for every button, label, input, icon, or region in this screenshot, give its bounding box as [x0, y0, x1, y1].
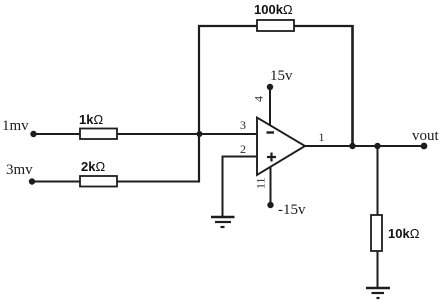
svg-text:3mv: 3mv — [6, 162, 33, 178]
wire: output from op-amp to vout — [305, 145, 424, 147]
svg-text:2kΩ: 2kΩ — [81, 159, 105, 174]
wire: 1mv input horizontal to node A — [33, 133, 258, 135]
node junction J1 (feedback joins output) — [349, 143, 355, 149]
svg-text:100kΩ: 100kΩ — [254, 2, 293, 17]
ground (right, below R3) — [366, 288, 390, 298]
wire: feedback right vertical — [351, 25, 354, 146]
svg-text:15v: 15v — [270, 68, 293, 84]
resistor R1 1k body — [80, 129, 117, 140]
node terminal vout dot — [421, 143, 428, 150]
node terminal 1mv dot — [30, 131, 36, 137]
svg-text:1kΩ: 1kΩ — [79, 112, 103, 127]
node A junction dot (summing node) — [197, 131, 203, 137]
wire: V- supply from op-amp bottom edge down — [270, 166, 272, 205]
node terminal +15v dot — [267, 84, 273, 90]
svg-text:10kΩ: 10kΩ — [388, 226, 420, 241]
svg-text:2: 2 — [240, 142, 246, 156]
ground (left, at + input) — [211, 217, 235, 227]
resistor RF 100k body — [257, 20, 294, 31]
wire: load branch vertical down to R3 — [377, 146, 379, 216]
svg-text:3: 3 — [240, 118, 246, 132]
wire: feedback left vertical (top wire down through node A to 2k wire) — [198, 25, 200, 182]
svg-text:1: 1 — [319, 130, 325, 144]
svg-text:vout: vout — [412, 128, 440, 144]
wire: R3 to ground — [377, 251, 379, 288]
op-amp minus sign — [267, 131, 275, 133]
svg-text:4: 4 — [252, 96, 266, 102]
svg-text:11: 11 — [254, 177, 268, 189]
resistor R3 10k body (vertical) — [371, 215, 382, 251]
resistor R2 2k body — [80, 176, 117, 187]
wire: 3mv input horizontal — [32, 181, 200, 183]
svg-text:-15v: -15v — [278, 202, 306, 218]
wire: V+ supply down to op-amp top edge — [269, 87, 271, 126]
svg-text:1mv: 1mv — [2, 118, 29, 134]
wire: non-inverting input to ground leg — [223, 157, 259, 218]
op-amp plus sign — [267, 153, 276, 162]
node junction J2 (load branch) — [374, 143, 380, 149]
op-amp U1 triangle — [257, 118, 305, 176]
wire: feedback top horizontal — [198, 25, 353, 27]
node terminal 3mv dot — [29, 178, 35, 184]
node terminal -15v dot — [267, 202, 273, 208]
